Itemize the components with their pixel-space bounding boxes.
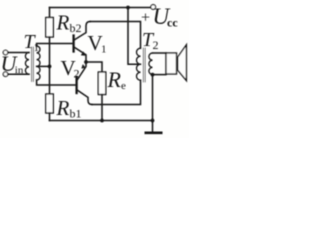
transformer T2 core xyxy=(143,48,145,82)
resistor Rb2 xyxy=(46,18,54,38)
svg-text:2: 2 xyxy=(153,38,159,52)
transistor V2 emitter arrow xyxy=(82,65,86,69)
transistor V2 collector xyxy=(78,90,93,104)
node speaker bottom junction xyxy=(151,73,155,77)
svg-text:e: e xyxy=(121,80,126,92)
transistor V2 emitter xyxy=(78,62,87,80)
svg-text:b1: b1 xyxy=(70,107,82,121)
node emitter junction xyxy=(84,60,88,64)
svg-text:1: 1 xyxy=(101,44,107,56)
wire Re bottom lead xyxy=(101,95,103,121)
transformer T1 primary winding xyxy=(25,53,29,75)
wire bottom ground rail xyxy=(50,120,153,122)
label Re xyxy=(107,67,127,92)
wire T2 secondary bottom to speaker xyxy=(153,74,167,76)
transistor V1 emitter arrow xyxy=(81,52,85,56)
wire input top xyxy=(8,52,29,54)
wire top supply rail xyxy=(50,7,151,9)
svg-text:1: 1 xyxy=(34,42,40,54)
node Re ground junction xyxy=(100,119,104,123)
node bias center-tap junction xyxy=(48,65,52,69)
resistor Re xyxy=(98,72,106,95)
label Uin xyxy=(1,51,24,77)
label Rb2 xyxy=(56,11,82,36)
wire emitter node to Re xyxy=(86,62,102,72)
transformer T2 primary winding xyxy=(137,48,141,80)
label +Ucc xyxy=(141,4,178,30)
transformer T1 secondary winding xyxy=(37,46,40,80)
wire input bottom xyxy=(8,73,29,75)
wire V2 collector to T2 primary bottom xyxy=(92,80,141,104)
label T2 xyxy=(142,29,159,52)
svg-text:cc: cc xyxy=(167,16,178,30)
speaker xyxy=(166,53,177,74)
terminal input bottom xyxy=(3,72,8,77)
wire Rb1 bottom lead xyxy=(49,113,51,121)
label V2 xyxy=(61,56,80,81)
svg-text:in: in xyxy=(15,65,24,77)
svg-text:+: + xyxy=(141,10,150,27)
label V1 xyxy=(88,31,107,56)
transformer T1 core xyxy=(32,47,34,82)
label Rb1 xyxy=(56,96,82,121)
wire bias vertical Rb2 to Rb1 xyxy=(49,37,51,94)
wire ground stub xyxy=(152,121,154,132)
transistor V2 base bar xyxy=(75,77,77,93)
wire T1 secondary top to V1 base xyxy=(37,44,73,47)
svg-text:R: R xyxy=(56,96,70,120)
wire T1 secondary bottom to V2 base xyxy=(37,80,76,85)
resistor Rb1 xyxy=(46,94,54,113)
transformer T2 secondary winding xyxy=(149,53,153,75)
svg-text:b2: b2 xyxy=(70,21,82,35)
svg-text:R: R xyxy=(56,11,70,35)
svg-text:R: R xyxy=(107,67,122,92)
wire T2 secondary top to speaker xyxy=(153,52,167,54)
terminal input top xyxy=(3,50,8,55)
node ground rail junction xyxy=(151,119,155,123)
wire Rb2 top lead from rail xyxy=(49,8,51,18)
wire speaker junction down to ground xyxy=(152,75,154,121)
ground xyxy=(146,132,161,135)
wire V1 collector to T2 primary top xyxy=(90,22,140,49)
wire Ucc feed down to T2 center tap xyxy=(128,8,141,65)
transistor V1 collector xyxy=(75,22,91,40)
svg-text:2: 2 xyxy=(74,67,80,81)
transistor V1 emitter xyxy=(75,47,87,62)
wire T1 center tap to bias node xyxy=(37,65,50,67)
node Ucc rail junction xyxy=(126,6,130,10)
label T1 xyxy=(24,31,40,54)
transistor V1 base bar xyxy=(72,36,74,52)
terminal +Ucc xyxy=(151,5,156,10)
